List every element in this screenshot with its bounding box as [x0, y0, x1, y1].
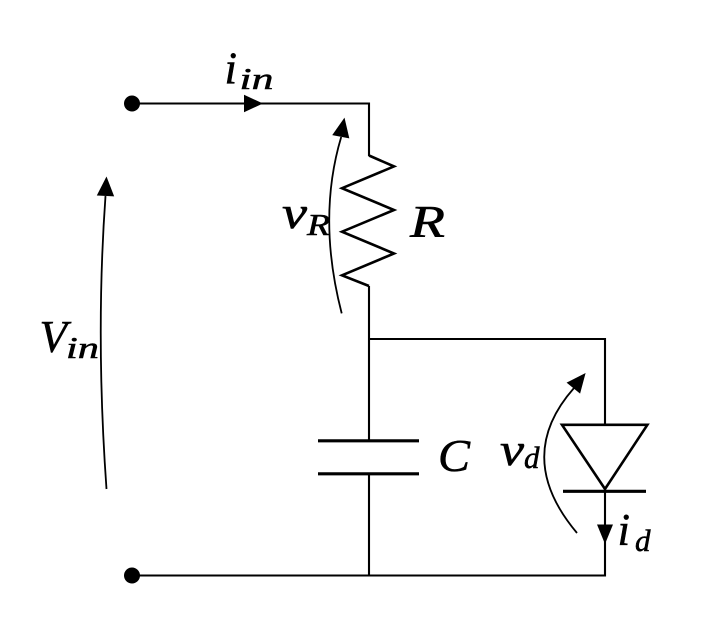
svg-text:id: id [618, 505, 652, 558]
svg-text:vR: vR [282, 188, 330, 242]
svg-text:Vin: Vin [40, 312, 100, 365]
svg-text:C: C [438, 431, 471, 481]
svg-text:vd: vd [500, 425, 540, 475]
svg-text:iin: iin [225, 44, 274, 97]
svg-text:R: R [409, 197, 445, 247]
